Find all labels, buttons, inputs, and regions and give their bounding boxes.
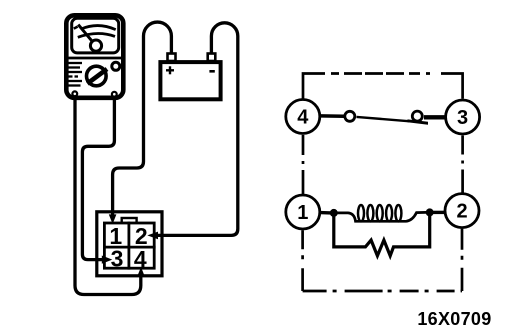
- switch blade tip wedge: [408, 119, 429, 124]
- switch contact circle right: [412, 111, 422, 121]
- switch wire from terminal 4: [321, 114, 345, 118]
- svg-text:3: 3: [457, 107, 468, 129]
- relay outline bottom dash-dot rail: [303, 290, 462, 293]
- arrow into pin 1: [109, 214, 117, 224]
- wire junction to terminal 2: [430, 211, 444, 214]
- meter tick mark: [74, 27, 78, 29]
- meter scale arc upper: [81, 26, 116, 30]
- battery minus label: [209, 70, 214, 73]
- resistor R1 branch: [334, 212, 430, 255]
- meter needle: [78, 25, 92, 42]
- connector cell divider vertical: [127, 222, 130, 270]
- switch wire to terminal 3: [424, 115, 446, 119]
- meter scale lines: [69, 63, 83, 86]
- wire meter left terminal to pin 4: [75, 96, 141, 294]
- junction node left: [330, 209, 338, 217]
- svg-text:4: 4: [134, 246, 147, 272]
- battery BT1 body: [160, 62, 220, 99]
- meter small indicator circle: [112, 62, 120, 70]
- multimeter divider line: [66, 57, 124, 60]
- battery terminal post left: [168, 54, 176, 62]
- switch contact circle left: [345, 111, 355, 121]
- svg-text:4: 4: [297, 107, 309, 129]
- battery terminal post right: [208, 54, 216, 62]
- switch blade: [357, 117, 411, 121]
- meter terminal right: [112, 92, 117, 97]
- meter terminal left: [72, 91, 77, 96]
- relay outline left mid dash-dot: [302, 135, 305, 194]
- connector J1 outer shell: [97, 212, 162, 276]
- coil L1 lead and loops: [334, 212, 426, 221]
- wire meter right terminal to pin 3: [82, 97, 114, 260]
- wire battery minus arc to right vertical: [158, 23, 238, 236]
- meter needle pivot circle: [90, 40, 101, 51]
- multimeter M1 body: [66, 15, 123, 98]
- relay outline right mid dash-dot: [461, 136, 464, 194]
- relay outline top rail left corner: [303, 74, 325, 99]
- connector cell divider horizontal: [103, 246, 156, 249]
- meter scale arc lower: [78, 34, 115, 38]
- relay outline top rail dash-dot middle: [325, 72, 441, 75]
- svg-text:2: 2: [456, 201, 467, 223]
- svg-text:1: 1: [297, 202, 308, 224]
- svg-text:16X0709: 16X0709: [417, 309, 491, 329]
- connector keyway tab: [122, 218, 137, 223]
- relay terminal circle 1: [286, 195, 320, 229]
- connector inner housing: [104, 223, 154, 268]
- arrow into pin 4: [137, 267, 144, 276]
- relay outline left lower dash-dot: [301, 230, 304, 291]
- arrow into pin 3: [102, 256, 113, 264]
- arrow into pin 2: [147, 232, 158, 240]
- relay outline top rail right corner: [441, 74, 463, 99]
- relay terminal circle 3: [446, 100, 480, 134]
- relay terminal circle 4: [286, 100, 320, 134]
- junction node right: [426, 208, 434, 216]
- svg-text:3: 3: [111, 246, 124, 272]
- multimeter display window: [72, 18, 119, 53]
- meter rotary knob: [87, 66, 108, 86]
- relay terminal circle 2: [445, 194, 479, 228]
- wire battery plus arc to left vertical: [113, 22, 172, 215]
- battery plus label: [166, 66, 174, 74]
- relay outline right lower dash-dot: [461, 229, 464, 291]
- wire terminal 1 to junction: [320, 211, 331, 215]
